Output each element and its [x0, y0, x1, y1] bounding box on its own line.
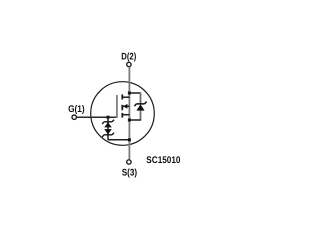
wire: body diode to source line: [129, 119, 140, 121]
gate zener D1 triangle (apex up): [104, 122, 112, 127]
node: source junction: [128, 119, 131, 122]
gate zener D2 cathode bar: [102, 133, 114, 137]
MOSFET channel dash top: [121, 94, 123, 99]
body zener diode triangle: [136, 104, 144, 110]
svg-text:SC15010: SC15010: [146, 155, 180, 166]
MOSFET channel dash middle: [121, 105, 123, 111]
source terminal S: [127, 160, 131, 164]
gate zener D1 cathode bar: [102, 120, 114, 124]
wire: body diode anode down: [140, 110, 142, 120]
wire: drain stub: [122, 96, 129, 98]
wire: gate lead: [77, 116, 118, 118]
wire: body stub: [123, 105, 129, 107]
wire: gate protection branch vertical: [107, 117, 109, 140]
MOSFET gate bar: [116, 95, 118, 118]
svg-text:D(2): D(2): [121, 51, 136, 62]
gate zener D2 triangle (apex down): [104, 129, 112, 134]
drain terminal D: [127, 62, 131, 66]
wire: body diode cathode drop: [140, 92, 142, 103]
body zener diode cathode bar: [134, 102, 146, 107]
body arrow (points to channel): [123, 104, 127, 109]
MOSFET channel dash bottom: [121, 113, 123, 118]
node: gate junction: [107, 116, 110, 119]
node: protection-source junction: [128, 138, 131, 141]
gate terminal G: [72, 115, 76, 119]
wire: protection branch to source: [108, 139, 129, 141]
transistor envelope circle: [91, 82, 155, 146]
svg-text:S(3): S(3): [122, 167, 137, 178]
wire: drain to body diode: [129, 92, 140, 94]
wire: drain-to-source main vertical: [128, 67, 130, 159]
wire: source stub: [122, 114, 129, 116]
svg-text:G(1): G(1): [68, 104, 85, 115]
node: drain junction: [128, 92, 131, 95]
